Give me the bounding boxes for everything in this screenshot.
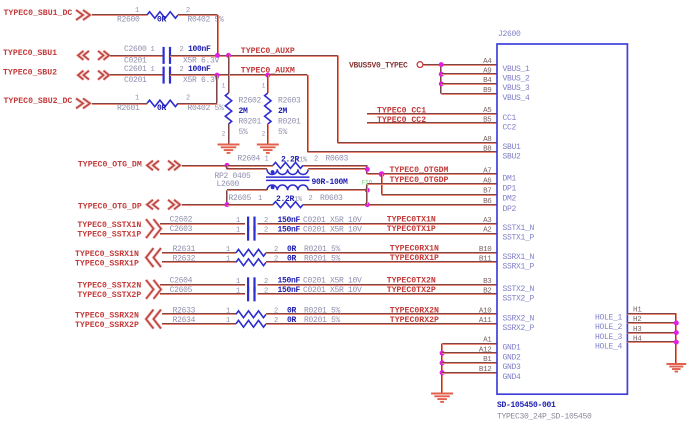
junction DP net — [365, 202, 370, 207]
wire AUXM to pin B8 — [307, 151, 497, 153]
ground R2602 — [218, 144, 240, 146]
wire DM2 to B7 — [382, 194, 497, 196]
svg-text:0R: 0R — [157, 104, 167, 113]
svg-text:VBUS5V0_TYPEC: VBUS5V0_TYPEC — [349, 62, 408, 71]
svg-text:C0201 X5R 10V: C0201 X5R 10V — [303, 225, 362, 234]
svg-text:R2602: R2602 — [239, 96, 262, 105]
wire R2600 out — [178, 14, 218, 16]
wire VBUS vertical — [440, 65, 442, 94]
wire OTGDM branch down — [381, 174, 383, 194]
svg-text:TYPEC0_OTG_DP: TYPEC0_OTG_DP — [78, 203, 142, 212]
wire DP vertical — [366, 184, 368, 204]
resistor R2604 2.2R — [273, 162, 303, 168]
capacitor C2601 100nF — [163, 67, 165, 84]
wire C2602 row right — [258, 223, 497, 225]
wire R2633 row left — [162, 313, 236, 315]
svg-text:SSRX2_P: SSRX2_P — [503, 324, 535, 333]
svg-text:R0201 5%: R0201 5% — [304, 306, 341, 315]
wire SBU2 row left — [110, 74, 164, 76]
svg-text:R2605: R2605 — [229, 194, 252, 203]
wire C2605 row left — [160, 293, 245, 295]
svg-text:C2605: C2605 — [170, 286, 193, 295]
svg-text:GND1: GND1 — [503, 344, 522, 353]
svg-text:0R: 0R — [287, 306, 297, 315]
svg-text:TYPEC0RX2P: TYPEC0RX2P — [390, 316, 439, 325]
junction VBUS B4 — [439, 81, 444, 86]
junction HOLE H4 — [674, 340, 679, 345]
svg-text:TYPEC0_AUXM: TYPEC0_AUXM — [241, 67, 295, 76]
capacitor C2603 150nF — [247, 226, 249, 241]
port arrow TYPEC0_SSRX1N/TYPEC0_SSRX1P — [146, 248, 161, 267]
svg-text:HOLE_4: HOLE_4 — [595, 342, 623, 351]
wire CC1 to A5 — [367, 113, 497, 115]
svg-text:C0201 X5R 10V: C0201 X5R 10V — [303, 286, 362, 295]
svg-text:TYPEC30_24P_SD-105450: TYPEC30_24P_SD-105450 — [497, 412, 592, 421]
svg-text:2: 2 — [314, 156, 318, 164]
svg-text:A7: A7 — [483, 167, 491, 175]
svg-text:C2600: C2600 — [124, 45, 147, 54]
svg-text:R0402 5%: R0402 5% — [188, 104, 225, 113]
svg-text:R2633: R2633 — [173, 306, 196, 315]
wire OTGDP to A6 — [367, 183, 497, 185]
svg-text:A1: A1 — [483, 337, 492, 345]
svg-text:0R: 0R — [157, 16, 167, 25]
wire pin H3 — [627, 332, 676, 334]
junction VBUS A4 — [439, 62, 444, 67]
capacitor C2605 150nF — [247, 287, 249, 302]
svg-text:B10: B10 — [479, 246, 492, 254]
junction DP split — [225, 202, 230, 207]
wire choke bottom in — [227, 189, 267, 191]
choke top winding dot — [271, 170, 275, 174]
svg-text:TYPEC0TX1P: TYPEC0TX1P — [387, 225, 436, 234]
svg-text:R0201: R0201 — [278, 117, 301, 126]
wire R2631 row left — [162, 252, 236, 254]
connector J2600 outline — [497, 44, 627, 394]
svg-text:L2600: L2600 — [217, 180, 240, 189]
ground HOLE net — [666, 363, 686, 365]
svg-text:TYPEC0_SBU2: TYPEC0_SBU2 — [3, 69, 57, 78]
svg-text:2: 2 — [180, 46, 184, 54]
wire AUXM down — [307, 75, 309, 152]
resistor R2634 0R — [236, 320, 266, 327]
wire C2605 row right — [258, 293, 497, 295]
svg-text:DP1: DP1 — [503, 184, 517, 193]
svg-text:A11: A11 — [479, 317, 492, 325]
svg-text:SSTX1_P: SSTX1_P — [503, 234, 535, 243]
wire CC2 to B5 — [367, 122, 497, 124]
svg-text:R0201 5%: R0201 5% — [304, 254, 341, 263]
svg-text:B9: B9 — [483, 87, 491, 95]
svg-text:2: 2 — [264, 227, 268, 235]
svg-text:90R-100M: 90R-100M — [312, 178, 349, 187]
svg-text:B8: B8 — [483, 145, 491, 153]
wire pin H1 — [627, 313, 676, 315]
wire C2602 row left — [160, 223, 245, 225]
svg-text:TYPEC0TX1N: TYPEC0TX1N — [387, 216, 436, 225]
svg-text:SD-105450-001: SD-105450-001 — [497, 401, 556, 410]
svg-text:2.2R: 2.2R — [281, 155, 300, 164]
svg-text:2: 2 — [264, 217, 268, 225]
junction GND A12 — [440, 351, 445, 356]
svg-text:CC2: CC2 — [503, 123, 517, 132]
junction choke top out — [365, 167, 370, 172]
port arrow right TYPEC0_SBU1 — [98, 51, 109, 60]
svg-text:C0201 X5R 10V: C0201 X5R 10V — [303, 216, 362, 225]
svg-text:1: 1 — [226, 308, 230, 316]
svg-text:1: 1 — [135, 7, 139, 15]
choke L2600 top winding — [267, 169, 308, 174]
wire SBU1 row right / AUXP — [170, 55, 338, 57]
wire GND A1 — [442, 343, 497, 345]
svg-text:A6: A6 — [483, 177, 492, 185]
svg-text:R0603: R0603 — [320, 194, 343, 203]
junction R2601-SBU2 — [215, 73, 220, 78]
svg-text:B11: B11 — [479, 256, 492, 264]
svg-text:2: 2 — [180, 66, 184, 74]
svg-text:TYPEC0TX2N: TYPEC0TX2N — [387, 276, 436, 285]
svg-text:A10: A10 — [479, 308, 492, 316]
svg-text:1: 1 — [151, 66, 155, 74]
svg-text:SSRX2_N: SSRX2_N — [503, 315, 535, 324]
svg-text:R0201 5%: R0201 5% — [304, 316, 341, 325]
wire SBU2_DC row — [92, 103, 147, 105]
svg-text:2: 2 — [274, 317, 278, 325]
svg-text:2: 2 — [264, 287, 268, 295]
wire R2601 up to SBU2 — [216, 75, 218, 103]
svg-text:GND2: GND2 — [503, 353, 522, 362]
svg-text:R2600: R2600 — [117, 15, 140, 24]
svg-text:1: 1 — [151, 46, 155, 54]
wire R2602 bottom — [228, 124, 230, 144]
svg-text:B12: B12 — [479, 366, 492, 374]
svg-text:150nF: 150nF — [278, 216, 301, 225]
svg-text:1: 1 — [226, 246, 230, 254]
wire DM to R2604 — [227, 165, 273, 167]
svg-text:2: 2 — [186, 95, 190, 103]
svg-text:C0201: C0201 — [124, 76, 147, 85]
svg-text:2: 2 — [309, 195, 313, 203]
svg-text:150nF: 150nF — [278, 277, 301, 286]
wire DP to R2605 — [227, 204, 273, 206]
wire R2604 out down — [366, 165, 368, 174]
svg-text:B7: B7 — [483, 188, 491, 196]
svg-text:150nF: 150nF — [278, 286, 301, 295]
wire R2631 row right — [266, 252, 497, 254]
svg-text:0R: 0R — [287, 316, 297, 325]
svg-text:HOLE_3: HOLE_3 — [595, 333, 623, 342]
junction GND B1 — [440, 360, 445, 365]
wire SBU1_DC row — [92, 14, 147, 16]
resistor R2632 0R — [236, 259, 266, 266]
svg-text:R2631: R2631 — [173, 245, 196, 254]
resistor R2605 2.2R — [273, 202, 303, 208]
choke L2600 bottom winding — [267, 185, 308, 190]
capacitor C2600 100nF — [163, 47, 165, 64]
svg-text:VBUS_4: VBUS_4 — [503, 94, 531, 103]
svg-text:A12: A12 — [479, 346, 492, 354]
wire pin H2 — [627, 322, 676, 324]
port arrow left TYPEC0_SBU1 — [78, 51, 89, 60]
svg-text:2: 2 — [274, 256, 278, 264]
wire GND vertical — [441, 344, 443, 393]
svg-text:SBU2: SBU2 — [503, 152, 522, 161]
wire pin H4 — [627, 341, 676, 343]
svg-text:TYPEC0_SSTX1P: TYPEC0_SSTX1P — [77, 231, 141, 240]
svg-text:TYPEC0_OTG_DM: TYPEC0_OTG_DM — [78, 160, 142, 169]
svg-text:1: 1 — [236, 227, 240, 235]
svg-text:TYPEC0RX2N: TYPEC0RX2N — [390, 306, 439, 315]
svg-text:A8: A8 — [483, 136, 491, 144]
svg-text:B1: B1 — [483, 356, 492, 364]
ground GND net — [431, 393, 453, 395]
svg-text:5%: 5% — [278, 128, 288, 137]
wire R2632 row right — [266, 261, 497, 263]
svg-text:1: 1 — [226, 256, 230, 264]
svg-text:A9: A9 — [483, 67, 491, 75]
svg-text:TYPEC0TX2P: TYPEC0TX2P — [387, 286, 436, 295]
wire C2604 row left — [160, 284, 245, 286]
port arrow right TYPEC0_SBU2 — [98, 71, 109, 80]
svg-text:A3: A3 — [483, 217, 492, 225]
port arrow left TYPEC0_SBU2 — [78, 71, 89, 80]
wire DM into choke — [226, 165, 228, 169]
svg-text:TYPEC0_SSRX1P: TYPEC0_SSRX1P — [75, 259, 139, 268]
svg-text:100nF: 100nF — [188, 65, 211, 74]
resistor R2600 0R — [147, 12, 178, 18]
junction R2602 branch — [226, 53, 231, 58]
port arrow right TYPEC0_OTG_DM — [168, 161, 180, 171]
svg-text:1: 1 — [236, 278, 240, 286]
wire SBU1 row left — [110, 55, 164, 57]
wire C2604 row right — [258, 284, 497, 286]
junction choke bottom out — [365, 188, 370, 193]
svg-text:VBUS_3: VBUS_3 — [503, 84, 531, 93]
svg-text:SSRX1_P: SSRX1_P — [503, 263, 535, 272]
wire GND B1 — [442, 362, 497, 364]
svg-text:2M: 2M — [239, 107, 249, 116]
svg-text:GND4: GND4 — [503, 373, 522, 382]
svg-text:TYPEC0_SSTX2N: TYPEC0_SSTX2N — [77, 282, 141, 291]
svg-text:100nF: 100nF — [188, 45, 211, 54]
svg-text:FID: FID — [362, 179, 373, 186]
choke core lines — [266, 176, 310, 178]
svg-text:CC1: CC1 — [503, 114, 517, 123]
svg-text:B4: B4 — [483, 77, 492, 85]
svg-text:2.2R: 2.2R — [276, 195, 295, 204]
svg-text:B2: B2 — [483, 287, 491, 295]
svg-text:A4: A4 — [483, 58, 492, 66]
svg-text:B3: B3 — [483, 278, 492, 286]
svg-text:R0603: R0603 — [326, 155, 349, 164]
svg-text:R2634: R2634 — [173, 316, 196, 325]
port arrow left TYPEC0_OTG_DM — [147, 161, 159, 171]
junction HOLE H2 — [674, 321, 679, 326]
svg-text:B5: B5 — [483, 116, 492, 124]
wire VBUS to A9 — [441, 73, 497, 75]
svg-text:R2603: R2603 — [278, 96, 301, 105]
wire GND B12 — [442, 372, 497, 374]
wire VBUS to A4 — [423, 64, 497, 66]
svg-text:TYPEC0_SSRX1N: TYPEC0_SSRX1N — [75, 250, 139, 259]
wire choke bottom left down — [226, 190, 228, 204]
svg-text:GND3: GND3 — [503, 363, 522, 372]
choke bottom winding dot — [271, 186, 275, 190]
port arrow right TYPEC0_OTG_DP — [168, 200, 180, 210]
resistor R2601 0R — [147, 100, 178, 106]
svg-text:TYPEC0_SSTX2P: TYPEC0_SSTX2P — [77, 291, 141, 300]
svg-text:TYPEC0_SBU2_DC: TYPEC0_SBU2_DC — [4, 97, 73, 106]
wire SBU2 row right / AUXM — [170, 74, 307, 76]
port arrow TYPEC0_SBU1_DC — [76, 10, 90, 20]
wire choke bottom out — [308, 189, 367, 191]
svg-text:TYPEC0RX1P: TYPEC0RX1P — [390, 254, 439, 263]
svg-text:2: 2 — [274, 246, 278, 254]
wire R2634 row left — [162, 323, 236, 325]
svg-text:DP2: DP2 — [503, 205, 517, 214]
svg-text:TYPEC0_SBU1_DC: TYPEC0_SBU1_DC — [4, 9, 73, 18]
svg-text:TYPEC0RX1N: TYPEC0RX1N — [390, 245, 439, 254]
svg-text:2: 2 — [186, 7, 190, 15]
svg-text:A2: A2 — [483, 227, 491, 235]
wire R2634 row right — [266, 323, 497, 325]
svg-text:HOLE_2: HOLE_2 — [595, 323, 623, 332]
wire R2600 down to SBU1 — [217, 15, 219, 55]
junction HOLE H3 — [674, 330, 679, 335]
svg-text:1: 1 — [236, 217, 240, 225]
svg-text:R2632: R2632 — [173, 254, 196, 263]
svg-text:SBU1: SBU1 — [503, 143, 522, 152]
wire R2605 out to B6 — [303, 204, 497, 206]
svg-text:SSTX2_N: SSTX2_N — [503, 285, 535, 294]
power node circle VBUS5V0_TYPEC — [417, 62, 423, 68]
port arrow TYPEC0_SBU2_DC — [76, 98, 90, 108]
svg-text:SSTX2_P: SSTX2_P — [503, 294, 535, 303]
wire R2603 bottom — [267, 124, 269, 144]
wire VBUS to B4 — [441, 83, 497, 85]
svg-text:5%: 5% — [239, 128, 249, 137]
svg-text:B6: B6 — [483, 198, 492, 206]
svg-text:VBUS_1: VBUS_1 — [503, 65, 531, 74]
wire R2633 row right — [266, 313, 497, 315]
wire HOLE vertical — [675, 314, 677, 364]
svg-text:1: 1 — [265, 156, 269, 164]
junction R2600-SBU1 — [215, 53, 220, 58]
svg-text:2M: 2M — [278, 107, 288, 116]
wire R2632 row left — [162, 261, 236, 263]
svg-text:1%: 1% — [299, 156, 308, 164]
svg-text:R2604: R2604 — [238, 155, 261, 164]
wire R2603 top — [267, 75, 269, 93]
wire AUXP to pin A8 — [338, 142, 498, 144]
svg-text:SSRX1_N: SSRX1_N — [503, 253, 535, 262]
svg-text:R0201 5%: R0201 5% — [304, 245, 341, 254]
svg-text:X5R 6.3V: X5R 6.3V — [183, 76, 220, 85]
wire R2601 out — [178, 103, 217, 105]
svg-text:C2604: C2604 — [170, 276, 193, 285]
svg-text:TYPEC0_SSRX2P: TYPEC0_SSRX2P — [75, 321, 139, 330]
wire OTG_DM — [182, 165, 227, 167]
wire GND A12 — [442, 352, 497, 354]
svg-text:1: 1 — [236, 287, 240, 295]
wire VBUS to B9 — [441, 93, 497, 95]
resistor R2633 0R — [236, 311, 266, 318]
junction R2603 branch — [265, 73, 270, 78]
svg-text:C2601: C2601 — [124, 65, 147, 74]
svg-text:TYPEC0_SSTX1N: TYPEC0_SSTX1N — [77, 221, 141, 230]
resistor R2603 2M — [265, 93, 271, 124]
resistor R2602 2M — [225, 93, 231, 124]
junction DM split — [225, 163, 230, 168]
capacitor C2604 150nF — [247, 277, 249, 292]
svg-text:DM2: DM2 — [503, 195, 517, 204]
resistor R2631 0R — [236, 249, 266, 256]
wire AUXP down — [337, 55, 339, 142]
wire OTGDM to A7 — [367, 173, 497, 175]
svg-text:TYPEC0_AUXP: TYPEC0_AUXP — [241, 47, 295, 56]
wire OTG_DP — [182, 204, 227, 206]
svg-text:VBUS_2: VBUS_2 — [503, 74, 531, 83]
port arrow TYPEC0_SSTX1N/TYPEC0_SSTX1P — [146, 219, 161, 238]
svg-text:C2603: C2603 — [170, 225, 193, 234]
svg-text:SSTX1_N: SSTX1_N — [503, 224, 535, 233]
wire C2603 row right — [258, 233, 497, 235]
junction OTGDM branch — [379, 171, 385, 177]
svg-text:150nF: 150nF — [278, 225, 301, 234]
svg-text:C0201 X5R 10V: C0201 X5R 10V — [303, 277, 362, 286]
svg-text:TYPEC0_SSRX2N: TYPEC0_SSRX2N — [75, 311, 139, 320]
svg-text:DM1: DM1 — [503, 174, 517, 183]
svg-text:0R: 0R — [287, 254, 297, 263]
svg-text:2: 2 — [274, 308, 278, 316]
junction GND B12 — [440, 370, 445, 375]
ground R2603 — [257, 144, 279, 146]
svg-text:TYPEC0_SBU1: TYPEC0_SBU1 — [3, 49, 57, 58]
svg-text:R0201: R0201 — [239, 117, 262, 126]
port arrow TYPEC0_SSTX2N/TYPEC0_SSTX2P — [146, 280, 161, 299]
port arrow TYPEC0_SSRX2N/TYPEC0_SSRX2P — [146, 310, 161, 329]
svg-text:1%: 1% — [294, 196, 303, 204]
svg-text:C2602: C2602 — [170, 216, 193, 225]
port arrow left TYPEC0_OTG_DP — [147, 200, 159, 210]
svg-text:A5: A5 — [483, 107, 492, 115]
junction VBUS A9 — [439, 72, 444, 77]
svg-text:1: 1 — [226, 317, 230, 325]
wire R2604 out — [303, 165, 367, 167]
wire C2603 row left — [160, 233, 245, 235]
svg-text:1: 1 — [258, 195, 262, 203]
wire R2602 top — [228, 55, 230, 93]
wire choke top out — [308, 168, 367, 170]
svg-text:0R: 0R — [287, 245, 297, 254]
capacitor C2602 150nF — [247, 217, 249, 232]
svg-text:J2600: J2600 — [498, 30, 521, 39]
svg-text:HOLE_1: HOLE_1 — [595, 314, 623, 323]
svg-text:1: 1 — [135, 95, 139, 103]
svg-text:2: 2 — [264, 278, 268, 286]
svg-text:R2601: R2601 — [117, 104, 140, 113]
